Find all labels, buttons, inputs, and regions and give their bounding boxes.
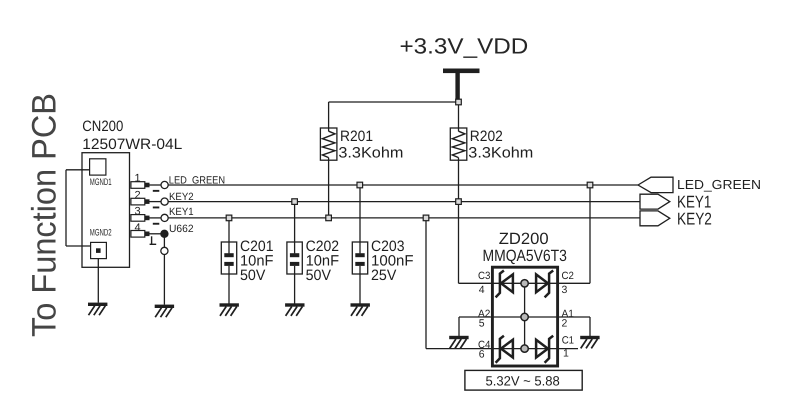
svg-text:KEY1: KEY1 (169, 206, 194, 218)
svg-text:1: 1 (563, 348, 569, 360)
svg-text:6: 6 (479, 349, 485, 361)
svg-text:4: 4 (479, 284, 485, 296)
svg-text:LED_GREEN: LED_GREEN (677, 177, 761, 192)
svg-text:C3: C3 (478, 270, 491, 282)
svg-text:C2: C2 (562, 270, 575, 282)
svg-text:25V: 25V (371, 267, 396, 284)
svg-text:4: 4 (134, 222, 140, 234)
svg-text:5.32V ~ 5.88: 5.32V ~ 5.88 (486, 374, 560, 389)
svg-text:LED_GREEN: LED_GREEN (169, 175, 225, 187)
svg-text:KEY2: KEY2 (169, 191, 194, 203)
svg-text:CN200: CN200 (82, 118, 123, 135)
svg-text:MMQA5V6T3: MMQA5V6T3 (483, 247, 567, 265)
svg-text:R201: R201 (340, 128, 373, 145)
svg-text:3.3Kohm: 3.3Kohm (338, 144, 403, 161)
svg-text:3.3Kohm: 3.3Kohm (468, 144, 533, 161)
svg-text:+3.3V_VDD: +3.3V_VDD (400, 34, 529, 59)
svg-text:5: 5 (479, 318, 485, 330)
svg-text:50V: 50V (240, 267, 265, 284)
svg-text:ZD200: ZD200 (499, 230, 549, 248)
svg-text:MGND2: MGND2 (90, 227, 112, 238)
svg-text:2: 2 (134, 189, 140, 201)
svg-text:12507WR-04L: 12507WR-04L (82, 136, 182, 153)
svg-text:R202: R202 (470, 128, 503, 145)
svg-text:3: 3 (562, 284, 568, 296)
svg-text:2: 2 (562, 318, 568, 330)
svg-text:50V: 50V (306, 267, 331, 284)
svg-text:1: 1 (134, 173, 140, 185)
svg-text:To Function PCB: To Function PCB (26, 93, 64, 337)
svg-text:KEY2: KEY2 (677, 209, 712, 228)
svg-text:C1: C1 (562, 335, 575, 347)
svg-text:U662: U662 (169, 223, 194, 235)
svg-text:3: 3 (134, 206, 140, 218)
svg-text:MGND1: MGND1 (90, 177, 112, 188)
